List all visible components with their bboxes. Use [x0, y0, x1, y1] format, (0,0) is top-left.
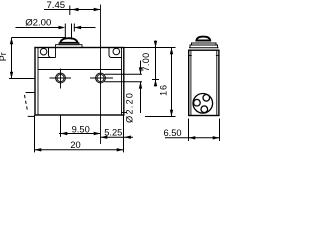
- lever terminal bottom edge: [28, 115, 35, 117]
- dimension 16 up arrow: [170, 48, 173, 55]
- dimension 7.00 line: [155, 41, 157, 87]
- svg-text:9.50: 9.50: [72, 124, 90, 134]
- dimension 16 bottom extension line: [145, 116, 176, 118]
- dimension 6.50 right extension: [219, 119, 221, 142]
- Pr dimension down arrow: [10, 72, 13, 79]
- dimension 7.45 left arrow: [72, 8, 79, 11]
- dimension 6.50 left arrow: [189, 136, 196, 139]
- lever terminal hidden edge (dashed): [25, 95, 28, 111]
- right hole crosshair: [90, 77, 113, 79]
- dimension 7.45 right arrow: [94, 8, 101, 11]
- dimension 6.50 left extension: [188, 119, 190, 142]
- left hole crosshair: [50, 69, 72, 89]
- side view collar lip: [192, 43, 217, 45]
- Pr dimension up arrow: [10, 38, 13, 45]
- dimension Ø2.20 up arrow: [139, 82, 142, 89]
- dimension 20 right arrow: [117, 148, 124, 151]
- side view big circle: [193, 94, 213, 114]
- Pr dimension top extension line: [12, 37, 67, 39]
- dimension Ø2.00 leader line: [16, 27, 60, 29]
- plunger dome cap: [60, 38, 77, 43]
- dimension 7.00 down arrow (top, outside): [154, 41, 157, 48]
- side view edge step dashes: [189, 55, 219, 57]
- dimension 16 down arrow: [170, 110, 173, 117]
- Pr dimension bottom extension line: [9, 78, 35, 80]
- dimension 6.50 line: [165, 137, 220, 139]
- body inner right line: [121, 48, 123, 115]
- dimension Ø2.00 left arrow: [59, 26, 66, 29]
- hidden edge dash bottom right: [122, 112, 128, 114]
- dimension 9.50 line and ticks: [59, 130, 101, 136]
- centerline through right hole (7.45 extension): [100, 5, 102, 145]
- side view small circle bottom: [201, 106, 208, 113]
- dimension 7.00 up arrow (bottom, outside): [154, 80, 157, 87]
- left tab hole: [40, 48, 47, 55]
- extension below body right edge: [123, 115, 125, 152]
- dimension Ø2.20 lower extension line: [105, 81, 143, 83]
- dimension 5.25 left arrow: [101, 136, 108, 139]
- dimension 20 line: [35, 149, 124, 151]
- side view dome cap: [196, 37, 210, 41]
- dimension Ø2.20 leader vertical: [140, 61, 142, 114]
- dimension 20 left arrow: [35, 148, 42, 151]
- dimension Ø2.00 right tail: [74, 27, 95, 29]
- side view collar base: [190, 45, 218, 48]
- dimension 6.50 right arrow: [213, 136, 220, 139]
- top edge extension to 16 dim: [124, 47, 176, 49]
- dimension Ø2.00 right arrow: [74, 26, 81, 29]
- dimension 5.25 right arrow (outside): [124, 136, 131, 139]
- plunger pin sides / Ø2.00 ticks: [65, 24, 74, 40]
- plunger base plate: [56, 45, 83, 58]
- dimension 7.45 line: [44, 9, 101, 11]
- Pr dimension line: [11, 38, 13, 79]
- right tab hole: [113, 48, 120, 55]
- extension below left hole: [60, 115, 62, 137]
- side view small circle top-right: [203, 95, 210, 102]
- body seam line: [38, 69, 122, 71]
- dimension 16 line: [171, 48, 173, 117]
- side view collar base bottom line: [189, 47, 219, 49]
- dimension 9.50 left arrow: [61, 132, 68, 135]
- svg-text:7.00: 7.00: [141, 53, 151, 72]
- left mounting tab: [38, 48, 56, 58]
- dimension 5.25 line: [101, 136, 134, 138]
- left hole ring: [56, 73, 66, 83]
- dimension Ø2.20 upper extension line: [105, 73, 143, 75]
- svg-text:16: 16: [158, 84, 168, 96]
- svg-text:Pr: Pr: [0, 52, 8, 61]
- dimension Ø2.20 down arrow: [139, 67, 142, 74]
- svg-text:Ø2.20: Ø2.20: [125, 92, 135, 123]
- svg-text:20: 20: [70, 140, 80, 150]
- switch body outline: [35, 48, 124, 116]
- side view small circle left: [194, 99, 201, 106]
- plunger flange: [59, 43, 79, 45]
- right hole ring: [96, 73, 106, 83]
- svg-text:6.50: 6.50: [163, 128, 181, 138]
- dimension 7.45 tick: [69, 6, 71, 16]
- right mounting tab: [109, 48, 122, 58]
- side view body outline: [189, 50, 219, 115]
- side view body inner lines: [191, 50, 217, 115]
- body inner left line: [37, 48, 39, 115]
- extension below body left edge: [34, 115, 36, 152]
- dimension 9.50 right arrow: [94, 132, 101, 135]
- lever terminal top edge: [26, 92, 35, 94]
- dimension 7.00 bottom tick: [152, 79, 159, 81]
